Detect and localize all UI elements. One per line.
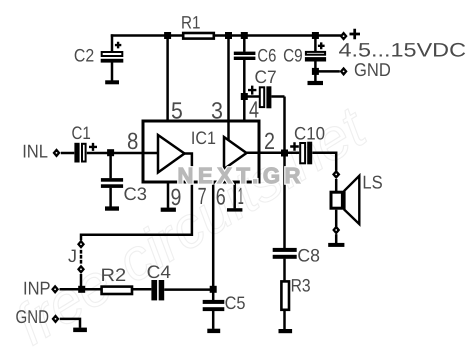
svg-text:J: J — [68, 246, 77, 266]
svg-text:5: 5 — [171, 98, 183, 124]
svg-text:8: 8 — [127, 128, 138, 154]
svg-text:GND: GND — [354, 59, 391, 80]
svg-text:R3: R3 — [291, 276, 311, 296]
svg-text:C9: C9 — [283, 45, 303, 65]
svg-text:C4: C4 — [147, 262, 171, 282]
svg-text:LS: LS — [362, 172, 382, 193]
svg-text:4: 4 — [249, 97, 259, 123]
svg-text:2: 2 — [264, 128, 275, 154]
svg-text:C6: C6 — [257, 45, 276, 65]
svg-text:INL: INL — [22, 141, 48, 162]
svg-text:C3: C3 — [124, 184, 148, 204]
svg-text:NEXT.GR: NEXT.GR — [178, 163, 306, 188]
svg-text:INP: INP — [23, 277, 51, 298]
svg-text:C2: C2 — [74, 46, 94, 66]
svg-text:C10: C10 — [294, 124, 325, 144]
svg-text:GND: GND — [16, 306, 50, 327]
svg-text:3: 3 — [211, 98, 223, 124]
svg-text:C8: C8 — [297, 246, 320, 266]
svg-text:IC1: IC1 — [191, 128, 216, 148]
svg-text:R1: R1 — [181, 13, 201, 33]
svg-text:C7: C7 — [255, 67, 277, 87]
svg-text:C5: C5 — [225, 293, 246, 313]
svg-text:R2: R2 — [101, 265, 127, 285]
svg-text:4.5...15VDC: 4.5...15VDC — [339, 39, 467, 61]
svg-text:C1: C1 — [72, 123, 91, 143]
